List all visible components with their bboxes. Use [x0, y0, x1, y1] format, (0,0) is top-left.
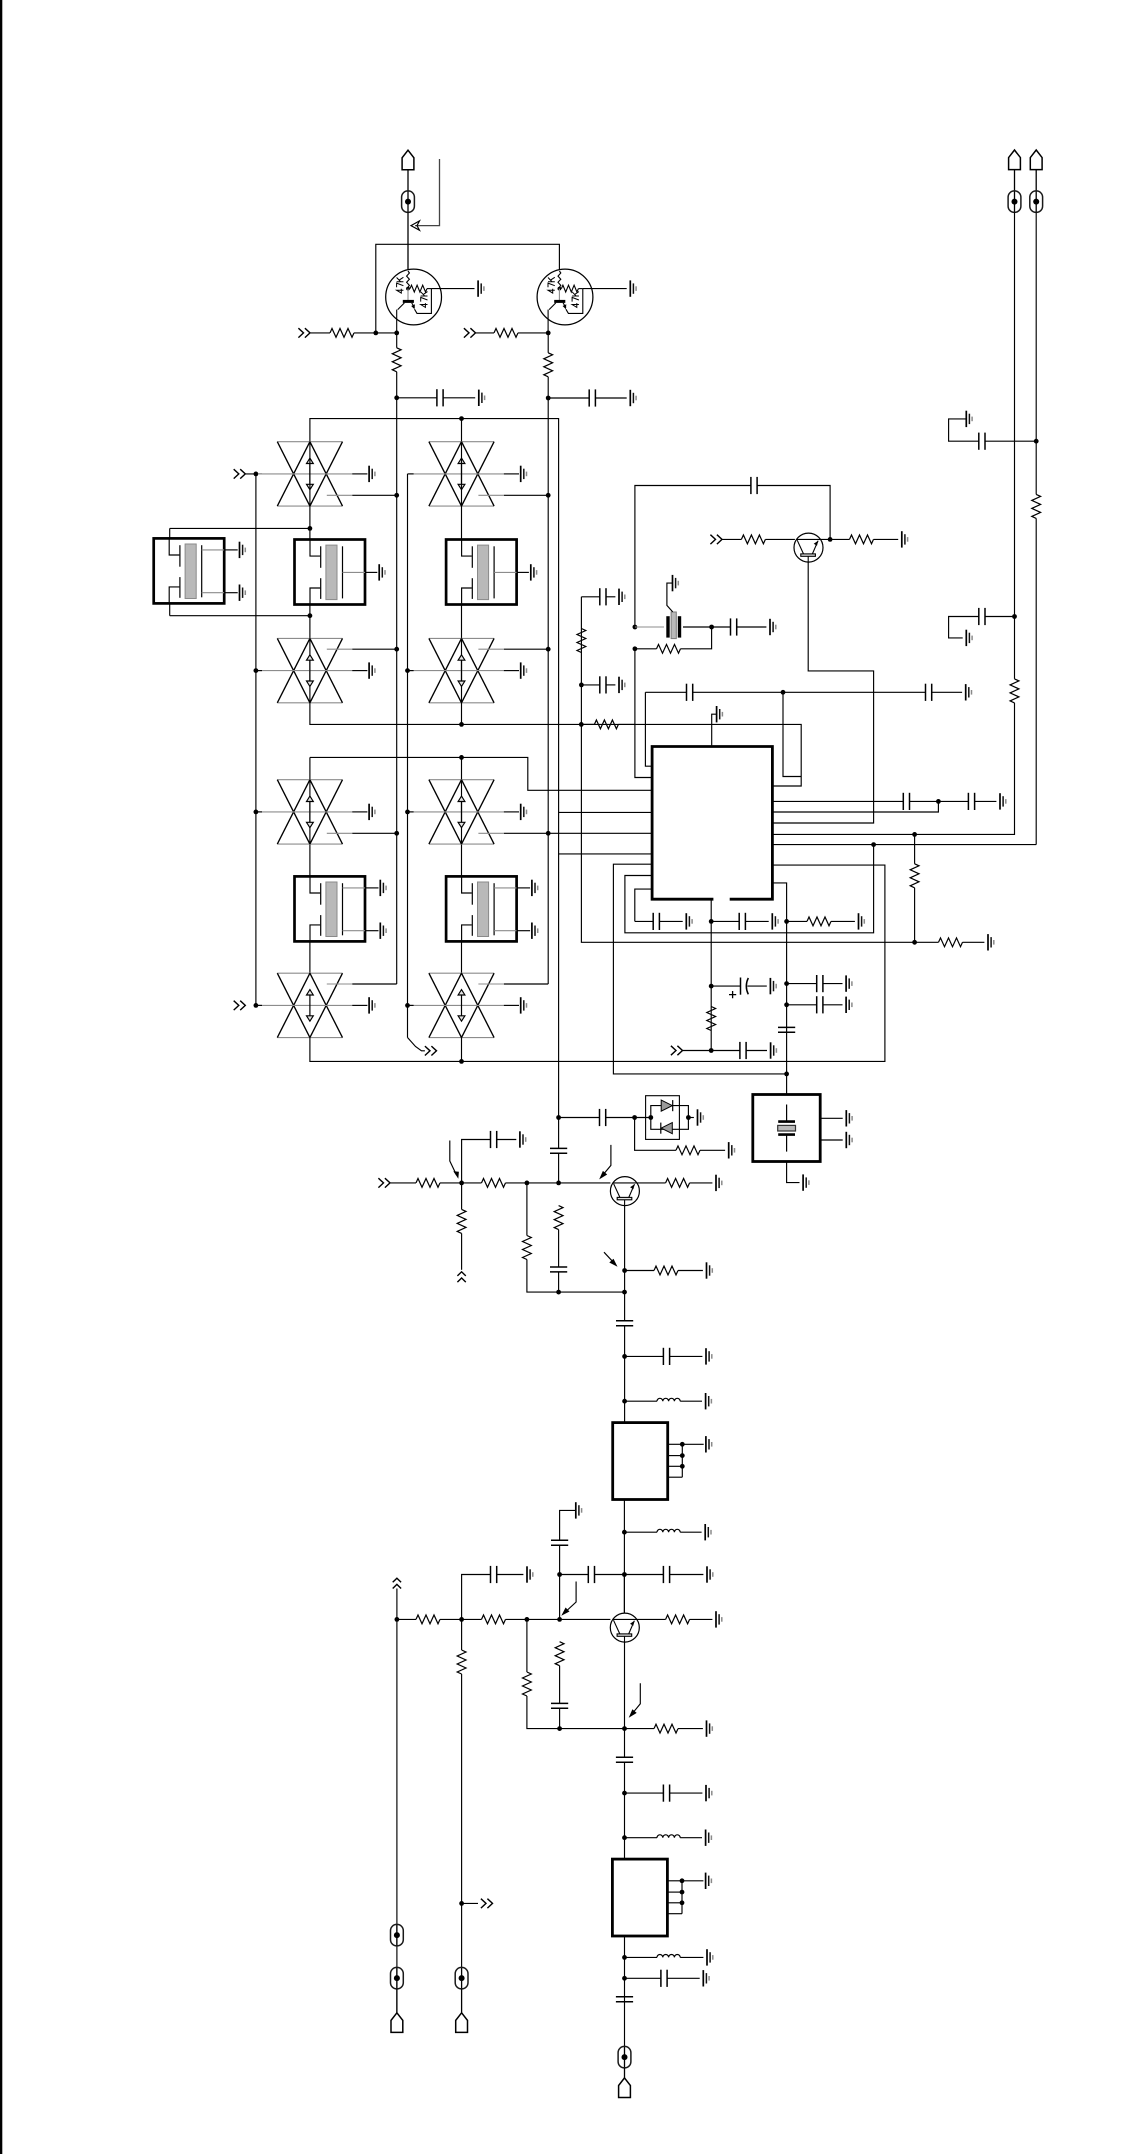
- node: [557, 1617, 562, 1622]
- wire Q3 emitter: [624, 1206, 626, 1293]
- wire: [821, 538, 850, 540]
- wire Q4 base cap up: [462, 1575, 491, 1620]
- wire: [683, 626, 712, 628]
- wire: [914, 888, 916, 943]
- chevron link in stage2: [393, 1578, 401, 1588]
- node: [394, 493, 399, 498]
- arrow adjust pointer Q3: [602, 1145, 611, 1176]
- wire: [548, 397, 589, 399]
- ground: [703, 1970, 709, 1986]
- wire: [765, 538, 795, 540]
- node: [557, 1726, 562, 1731]
- wire: [625, 1728, 655, 1730]
- inductor L4: [657, 1955, 680, 1958]
- wire: [712, 626, 731, 628]
- node: [622, 1976, 627, 1981]
- ground: [706, 1830, 712, 1846]
- resistor R8 parallel to Y1: [657, 644, 681, 653]
- wire row 1574: [560, 1574, 589, 1576]
- node: [784, 1002, 789, 1007]
- wire bias chain x581: [581, 597, 914, 943]
- wire U2 out: [623, 1500, 625, 1613]
- wire: [985, 616, 1015, 618]
- wire: [659, 920, 682, 922]
- node: [459, 1059, 464, 1064]
- wire bank2 top bus: [310, 757, 653, 790]
- wire: [443, 397, 475, 399]
- crystal unit X5 box: [753, 1095, 820, 1162]
- wire: [407, 213, 409, 270]
- node: [394, 831, 399, 836]
- node: [1012, 614, 1017, 619]
- wire: [606, 1117, 651, 1119]
- wire long supply row: [645, 692, 652, 766]
- wire: [712, 714, 717, 745]
- arrow adjust pointer: [450, 1141, 457, 1176]
- capacitor C10 mid right: [979, 608, 985, 625]
- wire: [558, 1153, 560, 1183]
- wire: [914, 834, 916, 863]
- wire: [787, 1004, 817, 1006]
- resistor R15: [707, 1007, 716, 1031]
- connector J7 oval: [391, 1967, 404, 1989]
- wire X4A left: [408, 811, 414, 813]
- resistor R19: [482, 1179, 506, 1188]
- connector J4 oval: [618, 2046, 631, 2067]
- wire X3A out: [352, 832, 397, 834]
- resistor R4: [544, 353, 553, 377]
- wire: [680, 1956, 703, 1958]
- node: [254, 668, 259, 673]
- wire: [823, 983, 843, 985]
- resistor R21: [554, 1206, 563, 1230]
- capacitor C19 series on rail: [778, 1027, 795, 1032]
- wire: [625, 1355, 664, 1357]
- wire diode bias drop: [635, 1118, 676, 1151]
- wire tall rail branch into U1 left: [559, 811, 653, 813]
- wire: [462, 1902, 478, 1904]
- resistor R20: [523, 1236, 532, 1260]
- ground: [772, 913, 778, 929]
- node Q1 collector: [394, 331, 399, 336]
- ground top right: [966, 411, 972, 427]
- capacitor C28: [663, 1566, 669, 1583]
- wire diode loop: [651, 1106, 689, 1130]
- wire: [963, 941, 985, 943]
- wire chain col2: [461, 941, 463, 973]
- wire X2B left: [408, 670, 414, 672]
- wire: [670, 1792, 703, 1794]
- ground: [479, 390, 485, 406]
- wire: [985, 440, 1036, 442]
- node: [633, 625, 638, 630]
- capacitor C14: [968, 793, 974, 810]
- capacitor C24 series: [616, 1321, 633, 1326]
- ground: [988, 934, 994, 950]
- wire: [949, 419, 979, 441]
- ground at U1 top: [717, 706, 723, 722]
- ground stage2 top: [576, 1502, 582, 1518]
- node: [579, 683, 584, 688]
- arrow emitter pointer: [604, 1252, 615, 1264]
- node: [622, 1399, 627, 1404]
- chevron col2 feed: [425, 1046, 437, 1055]
- wire left loop rail col2: [547, 398, 549, 984]
- wire X5 bottom: [787, 1162, 800, 1183]
- ground: [716, 1611, 722, 1627]
- diode D1: [661, 1100, 672, 1111]
- connector J3 oval: [1030, 191, 1043, 213]
- wire: [678, 1728, 703, 1730]
- node: [405, 1003, 410, 1008]
- resistor R14: [939, 938, 963, 947]
- capacitor C17: [817, 975, 823, 992]
- arrow emitter pointer Q4: [631, 1683, 640, 1714]
- capacitor C31 series: [616, 1757, 633, 1762]
- resistor R5: [594, 720, 618, 729]
- node Q2 collector: [546, 331, 551, 336]
- connector P2: [1009, 150, 1021, 170]
- node: [556, 1115, 561, 1120]
- capacitor C29: [491, 1566, 497, 1583]
- ground: [803, 1174, 809, 1190]
- ground: [846, 975, 852, 991]
- wire: [518, 332, 548, 334]
- wire Q2 emitter: [773, 562, 874, 823]
- wire: [461, 1989, 463, 2013]
- transducer X2A: [410, 442, 527, 506]
- wire chain col2 bank2: [461, 757, 463, 876]
- wire: [625, 1956, 658, 1958]
- wire: [722, 538, 741, 540]
- ground: [707, 1949, 713, 1965]
- wire: [407, 170, 409, 191]
- resistor R10 on rail A: [1010, 679, 1019, 703]
- wire Q1 internal to ground: [431, 288, 474, 290]
- ground: [706, 1785, 712, 1801]
- resistor R26: [482, 1615, 506, 1624]
- capacitor C11: [600, 588, 606, 605]
- wire X3B out: [352, 983, 397, 985]
- wire: [624, 1326, 626, 1423]
- ground: [706, 1348, 712, 1364]
- diode D2: [661, 1123, 672, 1134]
- ground: [619, 589, 625, 605]
- resistor R9: [807, 917, 831, 926]
- capacitor C27: [588, 1566, 594, 1583]
- ground: [706, 1393, 712, 1409]
- wire: [461, 1183, 463, 1210]
- node: [871, 842, 876, 847]
- resistor R23: [654, 1266, 678, 1275]
- node: [622, 1955, 627, 1960]
- crystal filter F4: [446, 876, 538, 941]
- IC U1 main box: [652, 747, 772, 900]
- connector P6: [391, 2013, 403, 2033]
- transducer X3B: [258, 973, 375, 1037]
- wire X2A out: [504, 494, 548, 496]
- node: [632, 1115, 637, 1120]
- node: [622, 1268, 627, 1273]
- wire U1 right pin 882.9 down: [773, 883, 787, 1095]
- wire X5 right pins: [820, 1117, 843, 1119]
- input chevron bank1: [234, 469, 246, 478]
- wire chain col1: [309, 605, 311, 703]
- capacitor C21 series: [550, 1148, 567, 1153]
- chevron Q2 input: [710, 535, 722, 544]
- wire X2A left: [408, 473, 414, 475]
- node: [709, 919, 714, 924]
- ground: [1000, 793, 1006, 809]
- wire U1 left pin loopA: [613, 864, 786, 1074]
- wire osc row y1117: [559, 1117, 600, 1119]
- wire: [745, 920, 768, 922]
- capacitor C30: [551, 1703, 568, 1708]
- ground: [846, 1132, 852, 1148]
- crystal filter F3: [295, 876, 387, 941]
- wire feedback drop: [415, 159, 440, 226]
- gray stub: [635, 626, 664, 628]
- resistor R30: [654, 1724, 678, 1733]
- wire: [700, 1149, 725, 1151]
- wire: [831, 920, 855, 922]
- wire chain col2: [461, 442, 463, 540]
- inductor L2: [657, 1529, 680, 1532]
- wire: [595, 1574, 664, 1576]
- capacitor C23: [550, 1267, 567, 1272]
- wire: [624, 2068, 626, 2078]
- wire: [558, 1272, 560, 1292]
- capacitor C33: [661, 1970, 667, 1987]
- wire Q4 emitter: [624, 1642, 626, 1729]
- node: [709, 625, 714, 630]
- wire U1 left pin loop row: [559, 853, 653, 855]
- capacitor C16: [740, 1042, 746, 1059]
- chevron into oscillator: [671, 1046, 683, 1055]
- wire U1 left pin loopB: [625, 845, 874, 933]
- gray stub: [478, 494, 503, 496]
- wire: [635, 648, 657, 650]
- resistor R12: [577, 629, 586, 653]
- ground above Y1: [673, 575, 679, 591]
- wire: [170, 615, 310, 617]
- gray stub: [478, 648, 503, 650]
- wire bias divider stage2: [527, 1619, 625, 1728]
- wire: [440, 1618, 482, 1620]
- wire: [1014, 170, 1016, 191]
- wire tall rail into osc base row: [558, 1118, 560, 1149]
- resistor R27: [523, 1672, 532, 1696]
- wire: [910, 800, 969, 802]
- crystal Y1 plates: [666, 616, 669, 637]
- node: [912, 832, 917, 837]
- resistor R3: [494, 329, 518, 338]
- node: [459, 722, 464, 727]
- node: [622, 1726, 627, 1731]
- wire Q2 collector down: [547, 333, 549, 353]
- resistor R29: [666, 1615, 690, 1624]
- node: [784, 1072, 789, 1077]
- wire: [787, 920, 807, 922]
- wire: [461, 703, 463, 725]
- gray stub: [327, 832, 352, 834]
- wire ground row under U1: [635, 920, 653, 922]
- capacitor C2: [589, 389, 595, 406]
- node rail drop: [373, 331, 378, 336]
- node: [1034, 439, 1039, 444]
- input chevron right: [464, 328, 476, 337]
- wire mid bus bank1 bottom: [310, 703, 801, 786]
- U2 right pins: [668, 1436, 712, 1477]
- connector J1 oval: [402, 191, 415, 213]
- wire: [559, 1666, 561, 1704]
- wire chain col1: [309, 442, 311, 540]
- capacitor C5: [687, 684, 693, 701]
- resistor R17: [416, 1179, 440, 1188]
- wire: [461, 1619, 463, 1650]
- transistor Q4: [610, 1613, 639, 1642]
- crystal filter F2: [446, 540, 536, 605]
- crystal Y1 body: [671, 612, 676, 639]
- wire: [625, 1837, 658, 1839]
- wire: [497, 1574, 524, 1576]
- node: [709, 984, 714, 989]
- IC U3: [612, 1859, 667, 1936]
- gray stub: [478, 832, 503, 834]
- wire Q2 internal to ground: [583, 288, 627, 290]
- node: [622, 1290, 627, 1295]
- capacitor C25: [663, 1348, 669, 1365]
- ground: [707, 1566, 713, 1582]
- wire emitter chain down: [624, 1729, 626, 1758]
- node: [546, 396, 551, 401]
- wire drop to IC right pin: [783, 692, 801, 776]
- transducer X4B: [410, 973, 527, 1037]
- ground: [707, 1262, 713, 1278]
- wire: [678, 1270, 703, 1272]
- wire Q4 collector top: [623, 1575, 625, 1614]
- wire: [390, 1182, 416, 1184]
- wire: [559, 1182, 611, 1184]
- wire: [625, 1792, 664, 1794]
- wire: [874, 538, 899, 540]
- wire: [690, 1618, 713, 1620]
- ground: [716, 1175, 722, 1191]
- wire X4B out: [504, 983, 548, 985]
- node: [622, 1572, 627, 1577]
- node: [556, 1181, 561, 1186]
- wire: [560, 1510, 576, 1540]
- wire left loop rail col1: [396, 398, 398, 984]
- wire: [581, 723, 594, 725]
- arrow adjust pointer Q4: [564, 1582, 576, 1614]
- IC U2: [613, 1423, 668, 1500]
- wire: [397, 1618, 416, 1620]
- ground: [966, 684, 972, 700]
- wire X4B left: [408, 1004, 414, 1006]
- wire: [949, 617, 979, 638]
- wire drop to U1 right pin: [773, 801, 939, 812]
- wire: [693, 691, 926, 693]
- connector J2 oval: [1008, 191, 1021, 213]
- node: [308, 613, 313, 618]
- resistor R11 on rail B: [1032, 494, 1041, 518]
- ground: [902, 531, 908, 547]
- transistor Q3: [610, 1177, 639, 1206]
- wire: [787, 983, 817, 985]
- ground: [770, 619, 776, 635]
- node: [936, 799, 941, 804]
- wire: [680, 1531, 701, 1533]
- wire: [624, 1531, 657, 1533]
- wire: [595, 397, 626, 399]
- node: [686, 1115, 691, 1120]
- page edge scan bar: [0, 0, 2, 2154]
- node: [459, 1901, 464, 1906]
- ground: [771, 1042, 777, 1058]
- wire: [635, 486, 751, 628]
- node: [459, 416, 464, 421]
- wire: [690, 1182, 713, 1184]
- connector J5 oval: [455, 1967, 468, 1989]
- node: [633, 646, 638, 651]
- wire chain col1 bank2: [309, 757, 311, 876]
- node: [781, 690, 786, 695]
- ground: [630, 280, 636, 296]
- arrowhead into antenna line: [411, 221, 420, 230]
- wire chain col1: [309, 941, 311, 973]
- ground: [478, 280, 484, 296]
- wire: [618, 723, 634, 725]
- node: [254, 472, 259, 477]
- wire: [245, 473, 262, 475]
- node: [622, 1530, 627, 1535]
- wire: [581, 596, 599, 598]
- wire: [461, 1038, 463, 1062]
- transducer X3A: [258, 780, 375, 844]
- resistor R24: [416, 1615, 440, 1624]
- node: [622, 1354, 627, 1359]
- resistor R7: [850, 535, 874, 544]
- wire: [581, 684, 599, 686]
- wire: [461, 1233, 463, 1269]
- wire: [396, 372, 398, 398]
- transistor Q2 digital pair: [537, 269, 593, 333]
- input chevron bank2: [234, 1001, 246, 1010]
- wire X1A out: [352, 494, 397, 496]
- wire: [645, 691, 686, 693]
- capacitor C7: [653, 913, 659, 930]
- wire: [397, 397, 437, 399]
- wire: [637, 1618, 666, 1620]
- wire electrolytic branch: [711, 985, 740, 987]
- wire: [606, 684, 615, 686]
- node: [525, 1181, 530, 1186]
- wire: [625, 1400, 657, 1402]
- ground: [846, 1110, 852, 1126]
- wire: [461, 419, 463, 442]
- transistor Q2: [794, 533, 823, 562]
- resistor R22: [666, 1179, 690, 1188]
- node: [395, 1617, 400, 1622]
- ground: [729, 1142, 735, 1158]
- transistor Q1 digital pair: [386, 269, 442, 333]
- node: [784, 981, 789, 986]
- wire Q1 collector down: [396, 333, 398, 348]
- connector P5: [456, 2013, 468, 2033]
- wire U3 out: [624, 1936, 626, 2046]
- node: [525, 1617, 530, 1622]
